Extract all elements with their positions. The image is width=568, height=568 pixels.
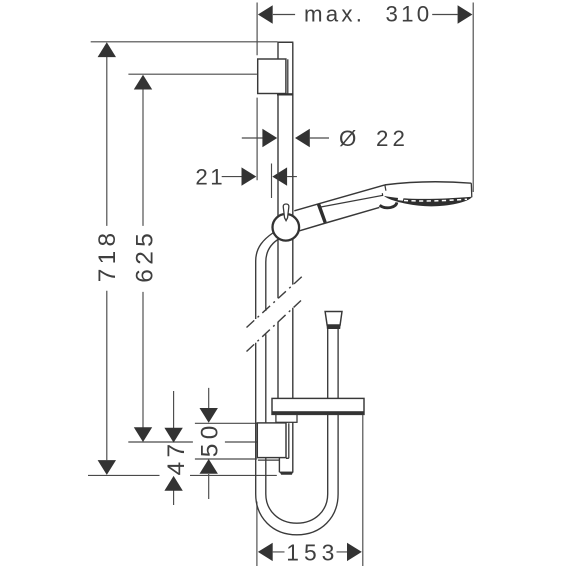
bar top cap: [277, 41, 293, 43]
soap dish: [272, 398, 364, 414]
arrow d22 left: [262, 129, 277, 147]
arrow 625 top: [134, 75, 152, 90]
svg-text:625: 625: [131, 229, 158, 283]
slider knob: [273, 214, 300, 241]
top mount thick bottom: [277, 93, 294, 95]
dimension 153 line: [273, 551, 348, 553]
arrow 153 right: [347, 543, 362, 561]
arrow max310 left: [258, 5, 273, 23]
hose outer edge: [256, 233, 338, 535]
extension line y442: [128, 441, 257, 443]
fitting nut band: [327, 325, 341, 329]
top mount echo line: [287, 59, 289, 93]
svg-text:718: 718: [94, 229, 121, 283]
arrow max310 right: [458, 5, 473, 23]
dimension d22 line: [242, 137, 329, 139]
extension line y475: [88, 474, 277, 476]
718 top extension line: [91, 41, 278, 43]
dimension 21 line: [222, 176, 297, 178]
handle inner line: [321, 195, 383, 207]
svg-text:50: 50: [196, 421, 223, 457]
handle grip band: [317, 204, 327, 224]
hand shower handle: [294, 185, 385, 232]
bottom bracket echo line: [286, 423, 289, 458]
arrow 21 right: [272, 167, 287, 185]
dimension 625 line: [142, 89, 144, 427]
max310 right extension line: [472, 3, 474, 193]
soap dish thick bottom: [272, 411, 364, 414]
153 right extension line: [362, 415, 364, 567]
arrow 153 left: [258, 543, 273, 561]
shower head body: [385, 182, 472, 206]
arrow 21 left: [241, 167, 256, 185]
spray face dashed line: [404, 199, 467, 201]
wall bar: [277, 42, 293, 472]
arrow 625 bottom: [134, 427, 152, 442]
break mark diagonal 2: [247, 301, 302, 352]
bracket step line: [258, 459, 280, 461]
head joint tick: [385, 185, 386, 191]
bar lower end left edge: [278, 458, 280, 473]
arrow 47 top: [164, 428, 182, 443]
wall extension line: [256, 3, 258, 181]
pivot tick: [381, 193, 383, 196]
svg-text:153: 153: [286, 539, 339, 565]
arrow 50 top: [200, 408, 218, 423]
hose supply fitting: [325, 312, 342, 326]
arrow 47 bottom: [164, 476, 182, 491]
soap dish collar: [276, 414, 297, 422]
hose inner edge: [266, 239, 328, 524]
arrow 718 bottom: [98, 460, 116, 475]
shower head spray face dark band: [384, 196, 471, 206]
extension line y459: [195, 458, 257, 460]
arrow 50 bottom: [200, 459, 218, 474]
svg-text:21: 21: [195, 165, 225, 190]
slider pin: [283, 204, 289, 221]
arrow 718 top: [98, 42, 116, 57]
handle pivot joint: [380, 202, 397, 207]
625 top extension line: [128, 73, 257, 75]
153 left extension line: [256, 502, 258, 567]
dimension max310 line: [273, 14, 458, 16]
extension line y423: [195, 422, 257, 424]
arrow d22 right: [295, 129, 310, 147]
dimension 47 line: [173, 391, 175, 505]
bar end cap: [279, 471, 293, 473]
21 right extension line: [271, 164, 273, 199]
svg-text:Ø 22: Ø 22: [339, 126, 409, 151]
svg-text:47: 47: [163, 440, 190, 476]
dimension 718 line: [106, 57, 108, 460]
svg-text:max. 310: max. 310: [304, 2, 432, 27]
pivot notch: [398, 197, 404, 201]
dimension 50 line: [208, 388, 210, 499]
top wall mount box: [258, 59, 286, 94]
bottom bracket box: [257, 423, 286, 458]
break mark diagonal 1: [247, 277, 303, 328]
